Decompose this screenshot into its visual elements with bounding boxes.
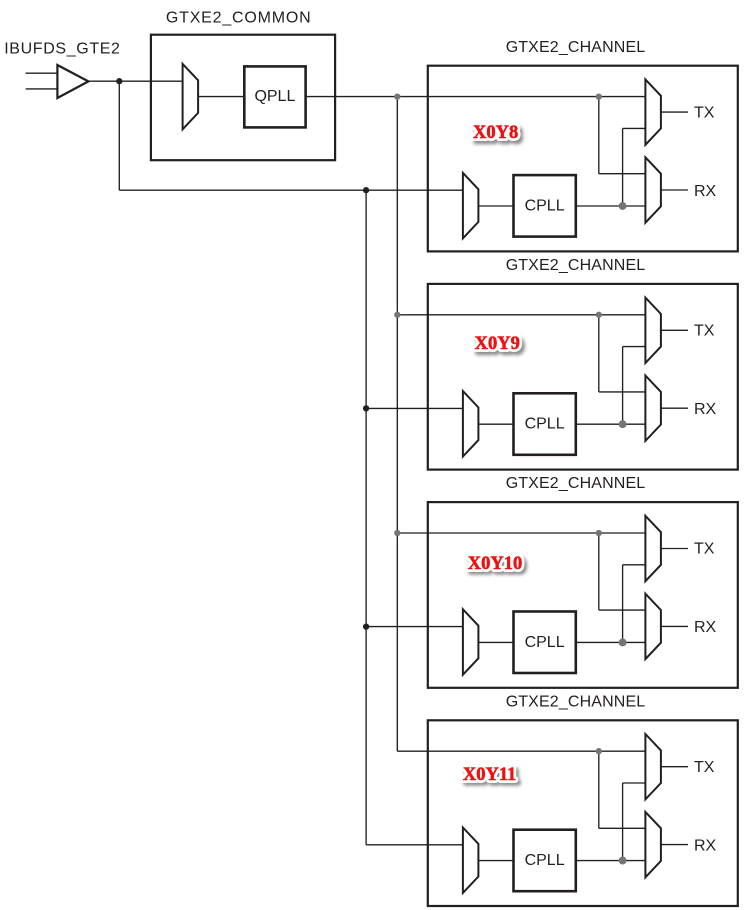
wire QPLL to RX mux input ch4 bbox=[599, 827, 646, 829]
wire CPLL to TX mux input ch1 bbox=[623, 127, 646, 129]
wire RX output ch1 bbox=[661, 189, 688, 191]
wire CPLL to TX mux input ch3 bbox=[623, 564, 646, 566]
wire QPLL to RX mux input ch2 bbox=[599, 391, 646, 393]
svg-text:RX: RX bbox=[694, 401, 717, 418]
box QPLL bbox=[244, 66, 305, 127]
wire TX output ch1 bbox=[661, 111, 688, 113]
wire TX output ch3 bbox=[661, 548, 688, 550]
svg-text:GTXE2_CHANNEL: GTXE2_CHANNEL bbox=[506, 475, 646, 492]
wire QPLL branch to channel3 TX mux bbox=[397, 532, 645, 534]
mux TX clock mux ch2 bbox=[645, 298, 661, 363]
svg-text:QPLL: QPLL bbox=[254, 88, 295, 105]
mux RX clock mux ch1 bbox=[645, 157, 661, 222]
svg-text:GTXE2_CHANNEL: GTXE2_CHANNEL bbox=[506, 39, 646, 56]
svg-text:RX: RX bbox=[694, 619, 717, 636]
wire TX output ch2 bbox=[661, 329, 688, 331]
wire refclk branch to channel3 bbox=[366, 626, 463, 628]
wire differential input N bbox=[26, 88, 58, 90]
node refclk branch junction ch3 bbox=[363, 623, 369, 629]
mux RX clock mux ch4 bbox=[645, 812, 661, 877]
wire mux to CPLL ch3 bbox=[478, 641, 513, 643]
wire QPLL drop to RX mux ch2 bbox=[598, 315, 600, 392]
wire QPLL branch to channel2 TX mux bbox=[397, 314, 645, 316]
wire CPLL to TX mux input ch2 bbox=[623, 346, 646, 348]
svg-text:X0Y8: X0Y8 bbox=[473, 123, 518, 143]
wire RX output ch3 bbox=[661, 625, 688, 627]
node refclk branch junction ch2 bbox=[363, 405, 369, 411]
node QPLL split junction ch2 bbox=[596, 312, 602, 318]
node QPLL split junction ch3 bbox=[596, 530, 602, 536]
wire mux to CPLL ch4 bbox=[478, 860, 513, 862]
node refclk branch junction ch1 bbox=[363, 187, 369, 193]
mux CPLL refclk mux ch1 bbox=[463, 173, 479, 238]
svg-text:GTXE2_COMMON: GTXE2_COMMON bbox=[166, 9, 312, 26]
wire QPLL drop to RX mux ch1 bbox=[598, 97, 600, 174]
wire differential input P bbox=[26, 72, 58, 74]
mux TX clock mux ch4 bbox=[645, 734, 661, 799]
svg-text:CPLL: CPLL bbox=[525, 197, 565, 214]
wire QPLL to RX mux input ch3 bbox=[599, 609, 646, 611]
node QPLL split junction ch1 bbox=[596, 93, 602, 99]
wire refclk branch to channel2 bbox=[366, 407, 463, 409]
wire QPLL to RX mux input ch1 bbox=[599, 173, 646, 175]
svg-text:TX: TX bbox=[694, 104, 715, 121]
block GTXE2_CHANNEL 2 bbox=[428, 284, 738, 470]
buffer IBUFDS_GTE2 triangle bbox=[57, 65, 88, 98]
block GTXE2_CHANNEL 3 bbox=[428, 502, 738, 688]
block GTXE2_CHANNEL 4 bbox=[428, 720, 738, 906]
node QPLL split junction ch4 bbox=[596, 748, 602, 754]
box CPLL ch3 bbox=[514, 612, 576, 674]
wire mux to CPLL ch2 bbox=[478, 423, 513, 425]
mux CPLL refclk mux ch2 bbox=[463, 391, 479, 456]
wire common mux to QPLL bbox=[198, 96, 244, 98]
node CPLL split junction ch3 bbox=[619, 638, 627, 646]
svg-text:GTXE2_CHANNEL: GTXE2_CHANNEL bbox=[506, 257, 646, 274]
block GTXE2_COMMON bbox=[151, 35, 335, 161]
wire CPLL rise to TX mux ch4 bbox=[622, 783, 624, 861]
svg-text:X0Y9: X0Y9 bbox=[475, 334, 520, 354]
node QPLL trunk junction ch3 bbox=[394, 530, 400, 536]
wire CPLL rise to TX mux ch2 bbox=[622, 347, 624, 425]
mux TX clock mux ch3 bbox=[645, 516, 661, 581]
wire RX output ch4 bbox=[661, 844, 688, 846]
wire QPLL drop to RX mux ch4 bbox=[598, 751, 600, 828]
mux CPLL refclk mux ch4 bbox=[463, 828, 479, 893]
svg-text:TX: TX bbox=[694, 759, 715, 776]
mux TX clock mux ch1 bbox=[645, 79, 661, 144]
wire CPLL rise to TX mux ch3 bbox=[622, 565, 624, 643]
wire RX output ch2 bbox=[661, 407, 688, 409]
wire QPLL output to channel1 TX mux bbox=[306, 96, 646, 98]
wire TX output ch4 bbox=[661, 766, 688, 768]
svg-text:TX: TX bbox=[694, 323, 715, 340]
wire refclk vertical drop bbox=[118, 81, 120, 190]
wire CPLL output to RX mux ch4 bbox=[576, 860, 646, 862]
node buffer output junction bbox=[116, 78, 122, 84]
svg-text:RX: RX bbox=[694, 837, 717, 854]
wire buffer output to common mux bbox=[88, 80, 182, 82]
wire refclk branch to channel4 bbox=[366, 844, 463, 846]
svg-text:CPLL: CPLL bbox=[525, 416, 565, 433]
block GTXE2_CHANNEL 1 bbox=[428, 66, 738, 252]
node QPLL trunk junction ch2 bbox=[394, 312, 400, 318]
wire CPLL output to RX mux ch2 bbox=[576, 423, 646, 425]
wire QPLL branch to channel4 TX mux bbox=[397, 750, 645, 752]
box CPLL ch4 bbox=[514, 830, 576, 892]
svg-text:TX: TX bbox=[694, 541, 715, 558]
svg-text:IBUFDS_GTE2: IBUFDS_GTE2 bbox=[4, 40, 120, 57]
box CPLL ch1 bbox=[514, 175, 576, 237]
svg-text:RX: RX bbox=[694, 183, 717, 200]
wire CPLL output to RX mux ch3 bbox=[576, 641, 646, 643]
wire QPLL drop to RX mux ch3 bbox=[598, 533, 600, 610]
mux RX clock mux ch2 bbox=[645, 376, 661, 441]
mux CPLL refclk mux ch3 bbox=[463, 609, 479, 674]
svg-text:CPLL: CPLL bbox=[525, 852, 565, 869]
mux common reference mux bbox=[183, 64, 199, 129]
svg-text:X0Y11: X0Y11 bbox=[463, 765, 516, 785]
node CPLL split junction ch2 bbox=[619, 420, 627, 428]
wire CPLL rise to TX mux ch1 bbox=[622, 128, 624, 206]
wire refclk vertical trunk bbox=[365, 190, 367, 845]
wire mux to CPLL ch1 bbox=[478, 205, 513, 207]
wire CPLL to TX mux input ch4 bbox=[623, 782, 646, 784]
node CPLL split junction ch4 bbox=[619, 857, 627, 865]
node CPLL split junction ch1 bbox=[619, 202, 627, 210]
svg-text:X0Y10: X0Y10 bbox=[468, 554, 522, 574]
wire refclk trunk to channel1 CPLL mux bbox=[119, 189, 463, 191]
wire QPLL vertical trunk bbox=[396, 97, 398, 752]
node QPLL trunk junction ch1 bbox=[394, 93, 400, 99]
mux RX clock mux ch3 bbox=[645, 594, 661, 659]
box CPLL ch2 bbox=[514, 393, 576, 455]
svg-text:CPLL: CPLL bbox=[525, 634, 565, 651]
wire CPLL output to RX mux ch1 bbox=[576, 205, 646, 207]
svg-text:GTXE2_CHANNEL: GTXE2_CHANNEL bbox=[506, 693, 646, 710]
